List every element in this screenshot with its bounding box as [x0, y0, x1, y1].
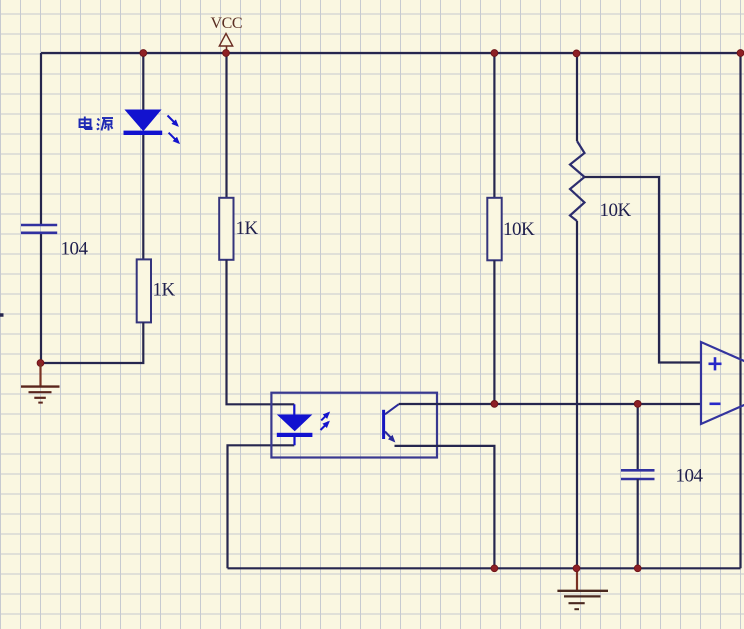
svg-text:10K: 10K — [600, 200, 632, 221]
label 电源 — [80, 117, 114, 131]
svg-text:1K: 1K — [236, 218, 259, 239]
wire C2 top lead — [637, 404, 639, 470]
capacitor C1 104 — [21, 225, 57, 233]
wire pot wiper tap to op-amp non-inverting input — [585, 177, 702, 363]
resistor R3 10K — [487, 198, 501, 260]
wire VCC to R3 — [493, 53, 495, 198]
op-amp U2 — [701, 342, 744, 424]
wire VCC to potentiometer — [576, 53, 578, 141]
junction collector node / R3 — [491, 401, 498, 408]
wire left rail lower — [40, 234, 42, 364]
wire stub (left edge) — [0, 313, 4, 317]
wire R1 to opto LED anode — [227, 260, 295, 405]
junction bottom rail / ground — [573, 565, 580, 572]
resistor R2 1K — [137, 259, 151, 322]
ground (bottom center) — [557, 568, 608, 609]
wire left rail — [40, 53, 42, 224]
wire right rail — [739, 53, 741, 568]
wire top rail VCC — [41, 52, 741, 54]
power VCC — [211, 15, 243, 53]
op-amp plus input symbol — [709, 357, 722, 370]
wire LED cathode to R2 — [142, 135, 144, 259]
op-amp minus input symbol — [710, 402, 721, 405]
svg-text:10K: 10K — [503, 219, 535, 240]
junction top rail at R1 column — [223, 50, 230, 57]
junction bottom rail / C2 — [634, 565, 641, 572]
potentiometer R4 10K (zigzag) — [570, 141, 585, 221]
LED D1 power indicator — [124, 110, 163, 135]
wire opto collector to op-amp inverting input — [399, 403, 701, 405]
resistor R1 1K — [219, 198, 233, 260]
wire pot bottom to bottom rail — [576, 221, 578, 568]
wire LED anode lead — [142, 53, 144, 110]
wire bottom rail — [228, 567, 741, 569]
wire opto cathode return to bottom rail — [228, 445, 295, 568]
svg-text:1K: 1K — [153, 280, 176, 301]
opto LED — [277, 404, 313, 445]
wire C2 bottom lead — [637, 479, 639, 568]
junction top rail at LED column — [140, 50, 147, 57]
svg-text:104: 104 — [61, 239, 89, 260]
junction inverting input / C2 — [634, 401, 641, 408]
junction top rail right end — [737, 50, 744, 57]
ground (left) — [21, 363, 60, 403]
junction top rail at R3 column — [491, 50, 498, 57]
wire R3 to collector node — [493, 260, 495, 404]
LED emission arrows — [168, 116, 179, 143]
svg-text:VCC: VCC — [211, 15, 243, 32]
capacitor C2 104 — [621, 470, 655, 479]
optocoupler U1 body — [271, 393, 437, 458]
wire opto emitter to bottom rail — [395, 446, 495, 568]
junction top rail at pot column — [573, 50, 580, 57]
junction bottom rail / emitter — [491, 565, 498, 572]
opto phototransistor Q1 — [384, 404, 399, 441]
svg-text:104: 104 — [676, 466, 704, 487]
wire VCC to R1 — [225, 53, 227, 198]
wire R2 bottom return — [40, 322, 143, 363]
junction left rail / R2 return — [37, 360, 44, 367]
opto emission arrows — [321, 413, 329, 430]
